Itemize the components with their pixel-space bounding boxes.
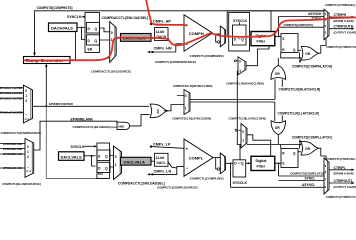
wire mux out to latch area <box>246 46 269 66</box>
mux DACH source select <box>110 22 117 63</box>
svg-text:2: 2 <box>27 155 29 159</box>
latch CLEARH (top) <box>281 34 298 53</box>
node COMPSTS[COMPHSTS] feedback wire <box>35 11 325 54</box>
pin CMPx_LN <box>151 173 153 175</box>
svg-text:–: – <box>25 112 27 116</box>
or-gate OR2L (to CTRIPL mux) <box>301 141 319 155</box>
pin CMPx_HN <box>151 51 153 53</box>
svg-text:Q: Q <box>105 155 108 159</box>
svg-text:COMPL: COMPL <box>189 155 204 160</box>
wire red: COMPH output through sync ff, digital filter, riser, CTRIPH mux to pin <box>210 18 356 37</box>
output CTRIPH <box>329 16 353 18</box>
svg-text:COMPCTL[COMPLINV]: COMPCTL[COMPLINV] <box>190 177 224 181</box>
svg-text:DACLVALA: DACLVALA <box>124 160 146 165</box>
svg-text:0: 0 <box>242 130 244 134</box>
svg-text:AND: AND <box>118 124 125 128</box>
wires flip-flops to DACL mux <box>110 156 114 168</box>
svg-text:COMPH: COMPH <box>189 31 204 36</box>
wire filter output to latch (bottom) <box>275 162 281 164</box>
flip-flop sync (top) <box>233 25 247 45</box>
svg-text:CMPx_HP: CMPx_HP <box>153 20 171 24</box>
or-gate ORHCLR (latch clear, points up) <box>271 65 286 79</box>
svg-text:COMPSTCLR[HLATCHCLR]: COMPSTCLR[HLATCHCLR] <box>279 87 321 91</box>
digital filter (top) <box>251 32 275 46</box>
svg-text:0: 0 <box>27 145 29 149</box>
svg-text:1: 1 <box>239 69 241 73</box>
sync block SYSCLK (top) <box>229 13 250 52</box>
svg-text:COMPSTSCLR[LSYNCCLREN]: COMPSTSCLR[LSYNCCLREN] <box>172 116 211 120</box>
wire OR2L output riser to mux <box>319 148 327 161</box>
svg-text:+: + <box>186 147 189 152</box>
svg-text:Q: Q <box>241 37 244 41</box>
wire EPWMSYNCPER line <box>33 105 150 107</box>
wire EPWMSYNCPER up into ramp generator <box>45 67 47 107</box>
svg-text:(OUTPUT X-BAR): (OUTPUT X-BAR) <box>334 31 356 35</box>
wire CMPx_LP to COMPL + <box>151 147 184 149</box>
svg-text:(EPWM X-BAR): (EPWM X-BAR) <box>334 171 354 175</box>
svg-text:COMPSTS[COMPLSTS]: COMPSTS[COMPLSTS] <box>290 172 324 176</box>
svg-text:S: S <box>282 162 284 166</box>
or-gate OR2H (to CTRIPH mux) <box>301 46 319 60</box>
mux COMPH invert select <box>213 33 221 35</box>
wire CMPx_HN to COMPH - <box>153 44 185 52</box>
svg-text:COMPSTCLR[LSYNCCLREN]: COMPSTCLR[LSYNCCLREN] <box>229 116 266 120</box>
flip-flop U3 shadow load (bottom) <box>97 143 110 178</box>
mux clear source (twin) <box>184 90 190 115</box>
svg-text:EN: EN <box>98 172 103 176</box>
wire DACHVALS to shadow-load flip-flops <box>77 28 85 40</box>
register DACLVALA (highlighted) <box>121 157 152 165</box>
pin CMPx_LP <box>150 145 152 147</box>
wire compl out <box>226 162 234 164</box>
register DACHVALS <box>49 23 78 32</box>
stub HLATCHCLR register input <box>281 79 283 87</box>
svg-text:0: 0 <box>115 155 117 159</box>
svg-text:CMPx_LN: CMPx_LN <box>154 170 172 174</box>
svg-text:OR: OR <box>275 72 281 76</box>
DAC U2 12-bit DACH <box>155 28 169 41</box>
wire mux2 out to EPWMBLANK line <box>34 121 117 150</box>
svg-text:DACHVALS: DACHVALS <box>51 26 73 31</box>
svg-text:COMPCTL[COMPHINV]: COMPCTL[COMPHINV] <box>190 54 224 58</box>
wire filter out riser to mux lines <box>279 17 324 37</box>
svg-text:0: 0 <box>239 60 241 64</box>
output CTRIPL <box>329 169 353 171</box>
wire mux out to latch area (bottom) <box>247 135 271 157</box>
svg-text:0: 0 <box>111 31 113 35</box>
output CTRIPOUTH <box>329 28 353 30</box>
svg-text:COMPCTL[COMPHSOURCE]: COMPCTL[COMPHSOURCE] <box>155 60 196 64</box>
svg-text:COMPDACCTL[BLANKEN]: COMPDACCTL[BLANKEN] <box>73 125 111 129</box>
svg-text:COMPSTCLR[LLATCHCLR]: COMPSTCLR[LLATCHCLR] <box>278 112 319 116</box>
mux LSYNCCLREN (near filter, bottom) <box>241 124 247 149</box>
svg-text:1: 1 <box>25 94 27 98</box>
svg-text:COMPSTS[COMPHLATCH]: COMPSTS[COMPHLATCH] <box>292 65 332 69</box>
svg-text:COMPDACCTL[RAMPSOURCE]: COMPDACCTL[RAMPSOURCE] <box>1 131 41 135</box>
wire DACH output to COMPH - <box>168 38 176 45</box>
svg-text:1: 1 <box>242 139 244 143</box>
svg-text:CTRIPOUTH: CTRIPOUTH <box>334 25 354 29</box>
wire red: CMPx_HP pin entry from top edge <box>146 0 187 25</box>
svg-text:COMPSTS[COMPHSTS]: COMPSTS[COMPHSTS] <box>284 23 313 27</box>
svg-text:COMPSTS[COMPHSTS]: COMPSTS[COMPHSTS] <box>37 6 73 10</box>
flip-flop U1 shadow load (top) <box>85 13 99 53</box>
wire CMPx_HP to COMPH + <box>151 23 184 26</box>
comparator COMPL <box>184 139 213 176</box>
wire ORHCLR output up to latch <box>277 58 279 66</box>
label COMPSTS[COMPLLATCH] with arrow <box>299 142 301 145</box>
or-gate OR1 (sync/blank) <box>150 104 168 118</box>
mux1 EPWMSYNCPER source <box>23 85 32 123</box>
svg-text:SYSCLK: SYSCLK <box>233 181 248 185</box>
svg-text:CMPx_HN: CMPx_HN <box>154 46 172 50</box>
svg-text:S: S <box>282 37 284 41</box>
wire comp out <box>226 36 234 38</box>
wire latch Q to OR (bottom) <box>298 151 301 153</box>
svg-text:COMPCTL[COMPLSOURCE]: COMPCTL[COMPLSOURCE] <box>157 185 198 189</box>
wire ASYNCH riser <box>226 11 228 37</box>
svg-text:ASYNCH: ASYNCH <box>308 12 322 16</box>
svg-text:COMPCTL[BLANKSOURCE]: COMPCTL[BLANKSOURCE] <box>2 182 41 186</box>
svg-text:EN: EN <box>88 48 93 52</box>
svg-text:COMPCTL[CTRIPOUTHSEL]: COMPCTL[CTRIPOUTHSEL] <box>326 45 356 49</box>
svg-text:(EPWM X-BAR): (EPWM X-BAR) <box>334 19 354 23</box>
svg-text:COMPSTCLR[HSYNCCLREN]: COMPSTCLR[HSYNCCLREN] <box>226 81 264 85</box>
svg-text:COMPSTSCLR[HSYNCCLREN]: COMPSTSCLR[HSYNCCLREN] <box>173 84 212 88</box>
svg-text:OR: OR <box>275 126 281 130</box>
svg-text:COMPCTL[CTRIPHSEL]: COMPCTL[CTRIPHSEL] <box>325 3 355 7</box>
svg-text:1: 1 <box>115 163 117 167</box>
svg-text:COMPCTL[CTRIPOUTLSEL]: COMPCTL[CTRIPOUTLSEL] <box>326 195 356 199</box>
ramp generator RAMPGEN <box>24 57 71 64</box>
stub LLATCHCLR register input <box>281 116 283 122</box>
svg-text:n-1: n-1 <box>26 169 31 173</box>
svg-text:COMPDACCTL[SWLOADSEL]: COMPDACCTL[SWLOADSEL] <box>102 16 149 20</box>
svg-text:−: − <box>186 166 189 171</box>
wire sync to filter <box>246 36 251 38</box>
or-gate ORLCLR (latch clear, points down) <box>271 121 286 135</box>
svg-text:(OUTPUT X-BAR): (OUTPUT X-BAR) <box>334 185 356 189</box>
svg-text:0: 0 <box>25 89 27 93</box>
svg-text:Q: Q <box>105 167 108 171</box>
svg-text:1: 1 <box>185 107 187 111</box>
svg-text:Filter: Filter <box>257 164 266 168</box>
latch CLEARL (bottom) <box>281 149 298 168</box>
wire AND out to OR1 <box>130 115 150 126</box>
wire twin outputs <box>190 100 275 103</box>
comparator COMPH <box>184 15 213 52</box>
inverter bubble <box>217 41 219 43</box>
mux CTRIPL select <box>324 158 329 194</box>
and-gate AND1 (blank) <box>117 122 130 129</box>
wire latch bottom line <box>281 53 302 58</box>
wire latch top line (bottom) <box>247 145 301 149</box>
red highlighted path <box>24 0 356 60</box>
svg-text:n-1: n-1 <box>25 117 30 121</box>
svg-text:OR: OR <box>305 52 311 56</box>
output CTRIPOUTL <box>329 182 353 184</box>
wires filter out risers to mux lines (bottom) <box>231 163 325 187</box>
svg-text:SYSCLK: SYSCLK <box>233 19 248 23</box>
wire latch Q to OR <box>298 49 301 51</box>
svg-text:Digital: Digital <box>256 159 267 163</box>
wire EPWMSYNCPER down to bottom EN <box>46 106 107 178</box>
svg-text:DACLVALS: DACLVALS <box>61 154 83 159</box>
mux DACL source select <box>114 146 122 180</box>
svg-text:CMPx_LP: CMPx_LP <box>153 142 171 146</box>
svg-text:Q: Q <box>95 39 98 43</box>
wire ORLCLR output down to latch <box>277 134 279 144</box>
register DACHVALA (highlighted) <box>121 34 152 42</box>
svg-text:2: 2 <box>25 99 27 103</box>
wire DACL output to COMPL - <box>168 162 177 168</box>
wire red: ramp generator through DAC mux, DACHVALA, DACH to COMPH minus <box>24 33 210 60</box>
wire OR1 out to clear source mux <box>164 105 184 111</box>
mux HSYNCCLREN (near filter, top) <box>238 57 246 75</box>
wire feedback drop <box>270 11 272 32</box>
register DACLVALS <box>59 152 85 161</box>
mux COMPL invert select <box>213 157 220 159</box>
svg-text:EPWMSYNCPER: EPWMSYNCPER <box>49 102 74 106</box>
wire ramp output to DAC mux <box>70 58 110 60</box>
svg-text:DACL: DACL <box>157 161 166 165</box>
wire EPWMSYNCPER riser to clear muxes <box>237 71 241 145</box>
mux2 EPWMBLANK source <box>25 139 34 178</box>
pin CMPx_HP <box>150 23 152 25</box>
svg-text:CTRIPH: CTRIPH <box>334 13 347 17</box>
svg-text:Q: Q <box>241 162 244 166</box>
digital filter (bottom) <box>251 156 275 170</box>
wires flip-flop outputs to DACH source mux <box>99 28 109 40</box>
svg-text:CTRIPL: CTRIPL <box>334 166 346 170</box>
wire sync to filter (bottom) <box>246 162 251 164</box>
svg-text:1: 1 <box>27 150 29 154</box>
svg-text:SYNCL: SYNCL <box>305 177 316 181</box>
svg-text:COMPCTL[CTRIPLSEL]: COMPCTL[CTRIPLSEL] <box>327 157 356 161</box>
svg-text:EPWMBLANK: EPWMBLANK <box>71 118 94 122</box>
svg-text:0: 0 <box>185 94 187 98</box>
svg-text:Filter: Filter <box>257 40 266 44</box>
wire CMPx_LN to COMPL - <box>153 167 185 175</box>
svg-text:12-bit: 12-bit <box>156 156 166 160</box>
wire DACLVALS to flip-flops <box>84 156 96 166</box>
label COMPSTS[COMPHLATCH] with arrow <box>299 58 301 61</box>
svg-text:SYSCLK: SYSCLK <box>71 145 86 149</box>
DAC U4 12-bit DACL <box>155 153 169 166</box>
svg-text:12-bit: 12-bit <box>156 30 166 34</box>
svg-text:COMPDACCTL[DACSOURCE]: COMPDACCTL[DACSOURCE] <box>91 70 131 74</box>
flip-flop sync (bottom) <box>239 145 241 160</box>
svg-text:SYNCLK: SYNCLK <box>67 15 82 19</box>
wire ASYNCL riser <box>230 163 232 187</box>
svg-text:OR: OR <box>305 147 311 151</box>
svg-text:ASYNCL: ASYNCL <box>302 183 315 187</box>
wire OR2H output riser to mux <box>319 38 326 53</box>
svg-text:CTRIPOUTL: CTRIPOUTL <box>334 179 353 183</box>
inverter bubble <box>217 168 219 170</box>
wire filter output to latch <box>275 36 281 38</box>
svg-text:COMPSTS[COMPLLATCH]: COMPSTS[COMPLLATCH] <box>292 136 332 140</box>
wire ASYNCH line <box>227 10 324 12</box>
svg-text:Q: Q <box>95 27 98 31</box>
mux CTRIPH select <box>324 9 329 39</box>
wire DACHVALS down to ramp <box>75 32 77 60</box>
